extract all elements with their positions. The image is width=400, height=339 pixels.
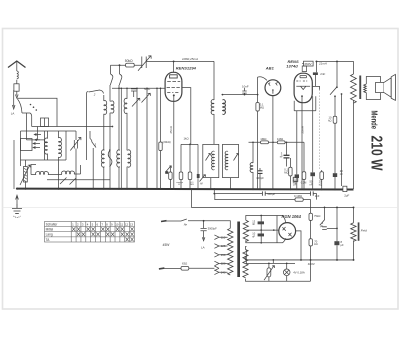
- svg-text:μF: μF: [320, 224, 324, 228]
- svg-text:1374d: 1374d: [286, 64, 298, 69]
- svg-text:2nF: 2nF: [320, 72, 325, 76]
- svg-text:LA: LA: [201, 245, 205, 249]
- svg-text:nF: nF: [340, 172, 343, 176]
- svg-text:1MΩ: 1MΩ: [277, 137, 284, 141]
- svg-text:100pF: 100pF: [256, 176, 264, 180]
- svg-text:RGN 1064: RGN 1064: [282, 214, 302, 219]
- svg-text:500pF: 500pF: [267, 192, 275, 196]
- svg-text:nF: nF: [252, 222, 255, 226]
- svg-text:125: 125: [221, 244, 226, 248]
- svg-text:23mA: 23mA: [300, 126, 304, 133]
- svg-text:63Ω: 63Ω: [182, 262, 187, 266]
- svg-text:nF: nF: [252, 234, 255, 238]
- svg-text:21mA: 21mA: [318, 62, 327, 66]
- svg-text:nF: nF: [280, 154, 283, 158]
- svg-text:50kΩ: 50kΩ: [125, 59, 133, 63]
- svg-text:2: 2: [93, 93, 96, 97]
- svg-text:AB1: AB1: [265, 65, 275, 70]
- svg-text:400V: 400V: [308, 262, 315, 266]
- svg-text:3000pF: 3000pF: [208, 227, 217, 231]
- svg-text:150: 150: [221, 253, 226, 257]
- svg-text:Lang: Lang: [46, 233, 53, 237]
- svg-text:Hf: Hf: [200, 183, 203, 186]
- svg-text:Schalter: Schalter: [46, 222, 59, 226]
- svg-text:0,1MΩ: 0,1MΩ: [294, 194, 302, 198]
- svg-text:210 W: 210 W: [368, 136, 385, 172]
- svg-text:13: 13: [130, 222, 134, 226]
- svg-text:25mA: 25mA: [169, 126, 173, 133]
- svg-text:0,2M: 0,2M: [301, 182, 307, 185]
- svg-text:10: 10: [115, 222, 119, 226]
- svg-text:75kΩ: 75kΩ: [314, 214, 320, 218]
- svg-text:240: 240: [221, 270, 226, 274]
- svg-text:μF: μF: [341, 243, 345, 247]
- svg-text:220: 220: [221, 262, 226, 266]
- svg-text:kΩ: kΩ: [319, 183, 322, 186]
- svg-text:kΩ: kΩ: [314, 242, 317, 246]
- svg-text:(20kΩ): (20kΩ): [163, 140, 171, 144]
- svg-text:45W: 45W: [163, 243, 171, 247]
- svg-text:Mittel: Mittel: [46, 228, 54, 232]
- svg-text:110: 110: [221, 235, 226, 239]
- svg-text:50pF: 50pF: [144, 87, 151, 91]
- svg-text:MΩ: MΩ: [190, 184, 194, 186]
- svg-text:1kΩ: 1kΩ: [184, 136, 189, 140]
- svg-text:kΩ: kΩ: [328, 118, 331, 122]
- svg-text:1nF: 1nF: [315, 194, 320, 198]
- svg-text:4V 0,18A: 4V 0,18A: [293, 271, 305, 275]
- svg-text:LA: LA: [11, 111, 15, 115]
- svg-text:360V: 360V: [304, 62, 312, 66]
- svg-text:MΩ: MΩ: [260, 105, 264, 109]
- svg-text:Feld: Feld: [361, 228, 367, 232]
- svg-text:2μF: 2μF: [344, 193, 349, 197]
- svg-text:10nF: 10nF: [242, 85, 249, 89]
- svg-text:11: 11: [120, 222, 123, 226]
- svg-text:MΩ: MΩ: [284, 170, 288, 174]
- svg-text:Mende: Mende: [370, 111, 380, 130]
- svg-text:nF: nF: [310, 183, 313, 186]
- svg-text:100Ω,25mA: 100Ω,25mA: [182, 57, 198, 61]
- svg-text:RENS1294: RENS1294: [176, 65, 197, 70]
- svg-text:1MΩ: 1MΩ: [260, 137, 267, 141]
- svg-text:pF: pF: [294, 183, 297, 186]
- svg-text:Ne: Ne: [184, 222, 188, 226]
- svg-text:12: 12: [125, 222, 129, 226]
